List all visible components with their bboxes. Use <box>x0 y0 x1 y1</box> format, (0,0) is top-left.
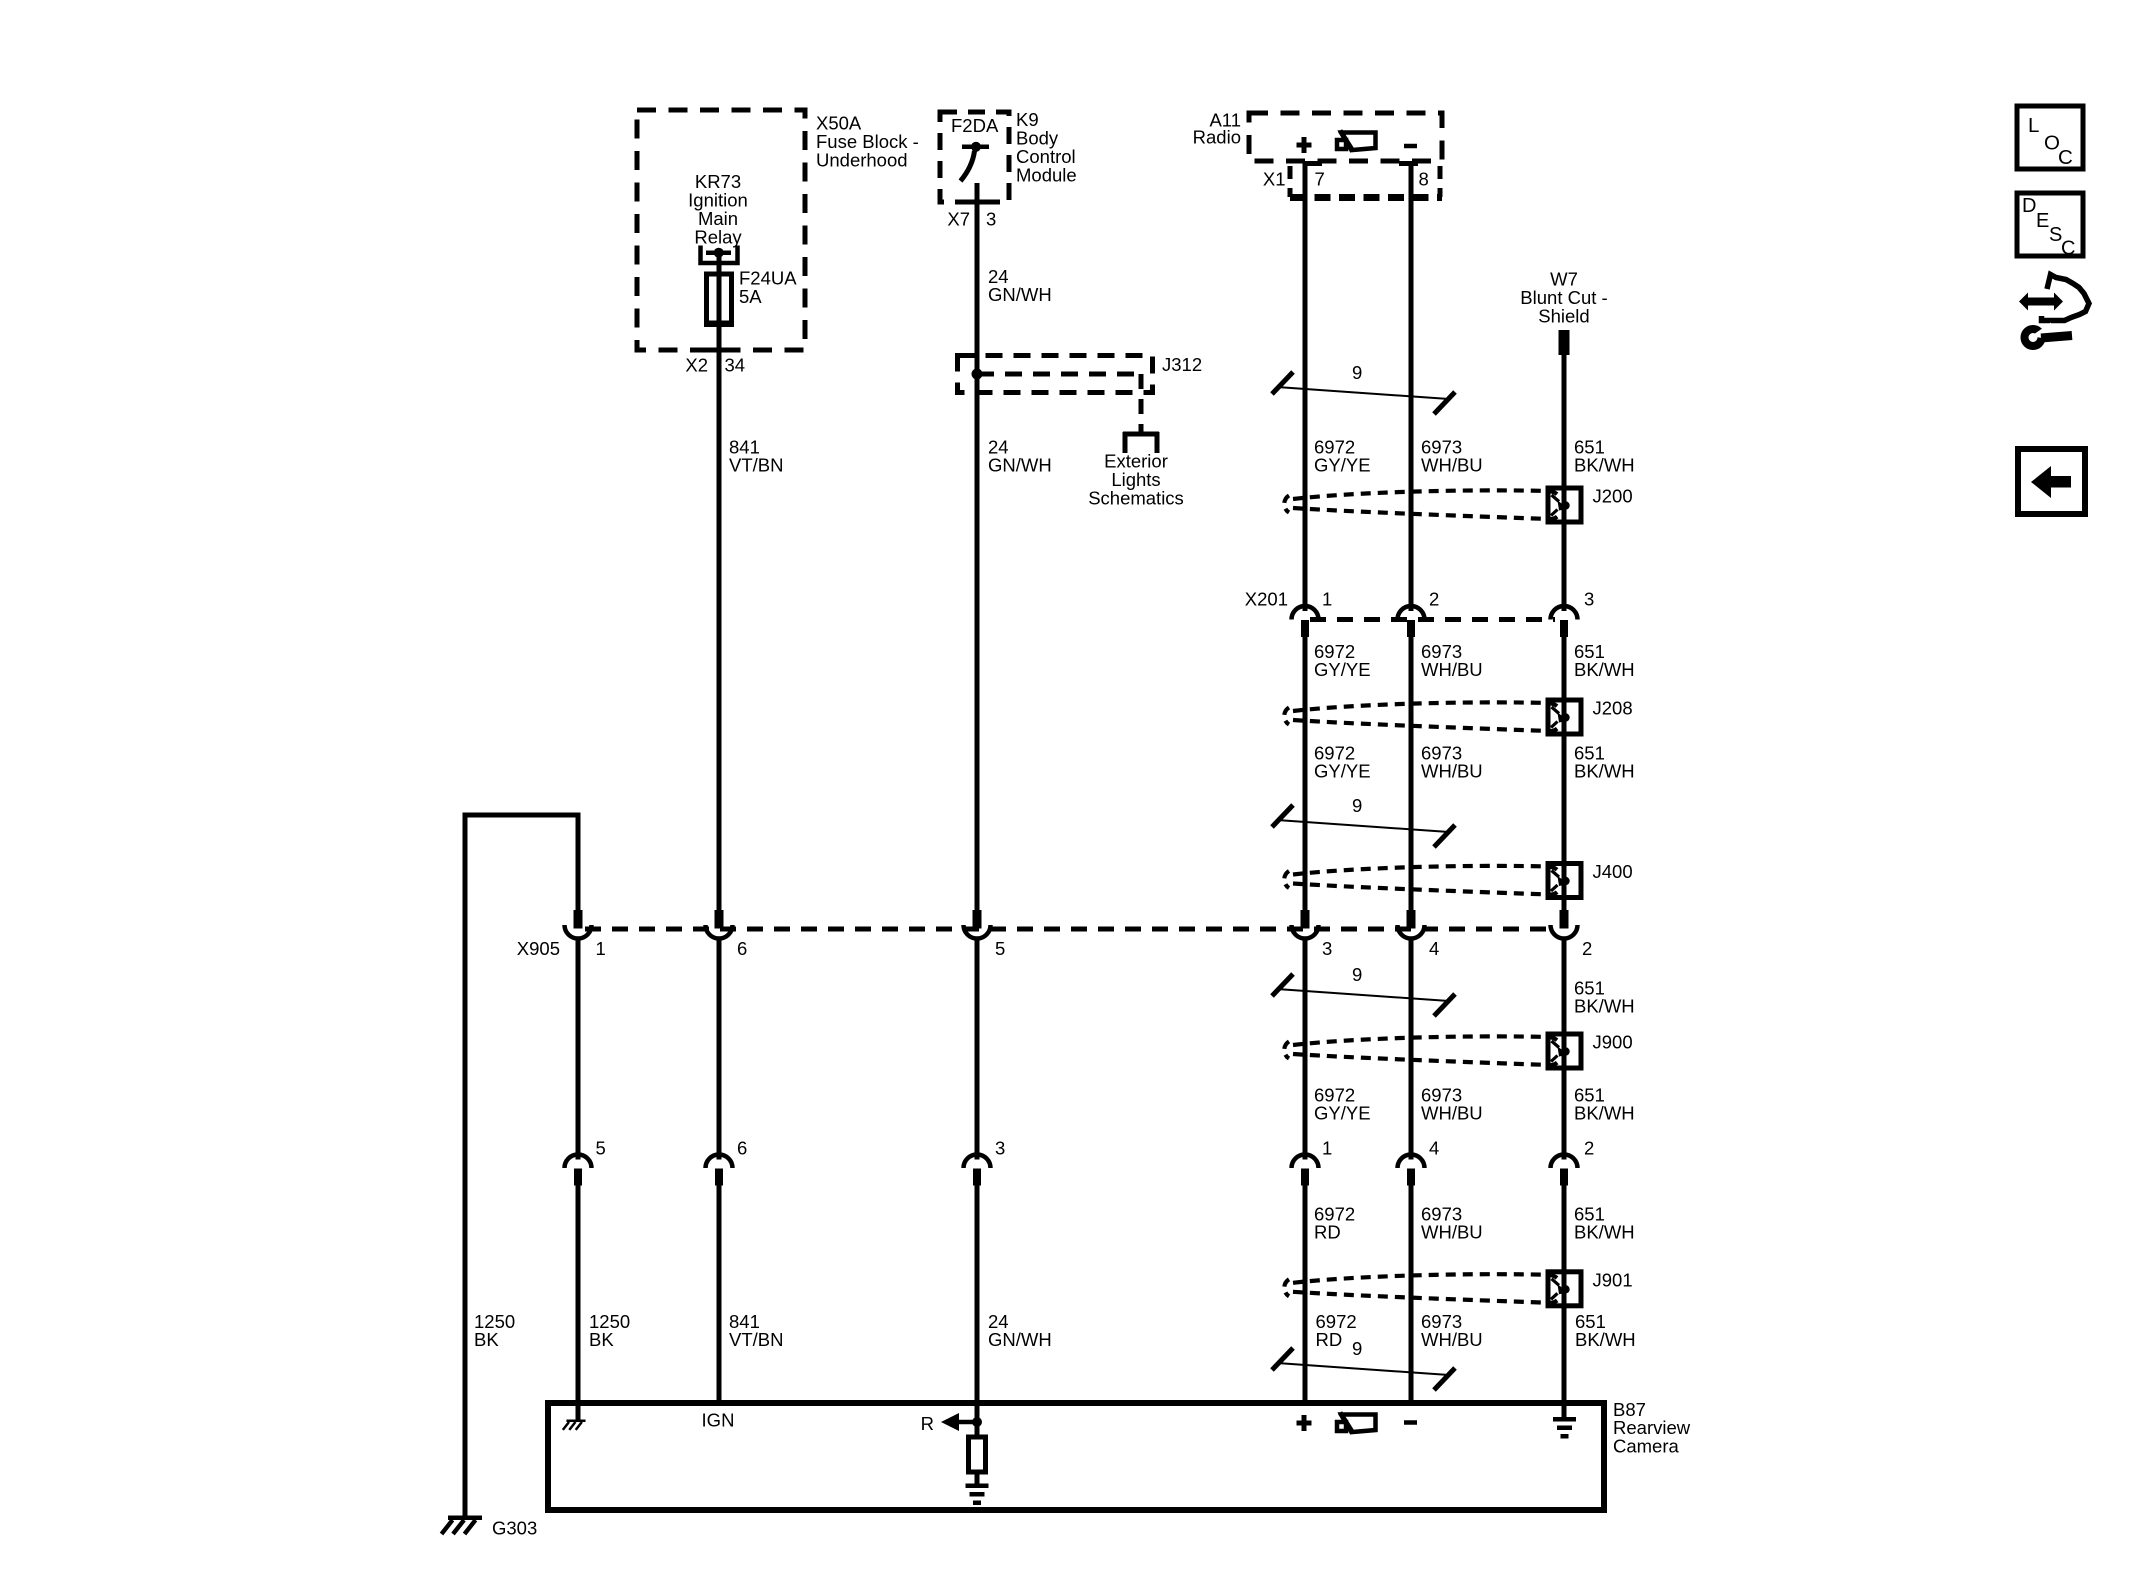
svg-text:C: C <box>2058 146 2073 169</box>
splice arrow J900 <box>1551 1041 1570 1062</box>
icon DESC <box>2017 193 2083 260</box>
svg-text:Module: Module <box>1016 165 1077 186</box>
wire labels row 3 <box>1314 742 1635 781</box>
svg-text:4: 4 <box>1429 938 1439 959</box>
splice J901 <box>1548 1269 1633 1306</box>
shield ellipse J900 <box>1284 1036 1560 1065</box>
svg-text:8: 8 <box>1419 169 1429 190</box>
svg-text:WH/BU: WH/BU <box>1421 761 1483 782</box>
svg-text:BK/WH: BK/WH <box>1575 1329 1636 1350</box>
svg-text:R: R <box>921 1413 934 1434</box>
svg-text:5: 5 <box>596 1138 606 1159</box>
wire 841 VT/BN <box>717 253 722 1406</box>
camera termination resistor <box>966 1437 989 1505</box>
svg-text:D: D <box>2022 195 2036 217</box>
shield ellipse J208 <box>1284 702 1560 731</box>
svg-text:Relay: Relay <box>694 227 742 248</box>
svg-text:BK/WH: BK/WH <box>1574 761 1635 782</box>
svg-text:VT/BN: VT/BN <box>729 1329 783 1350</box>
svg-text:WH/BU: WH/BU <box>1421 1103 1483 1124</box>
svg-text:GY/YE: GY/YE <box>1314 455 1371 476</box>
svg-text:2: 2 <box>1429 589 1439 610</box>
wire labels row 5 <box>1314 1084 1635 1123</box>
svg-text:RD: RD <box>1316 1329 1343 1350</box>
svg-text:1: 1 <box>596 938 606 959</box>
radio camera symbol <box>1337 131 1376 152</box>
splice J208 <box>1548 698 1633 735</box>
svg-text:Radio: Radio <box>1193 127 1241 148</box>
svg-text:WH/BU: WH/BU <box>1421 455 1483 476</box>
svg-text:1: 1 <box>1322 1138 1332 1159</box>
svg-text:GY/YE: GY/YE <box>1314 659 1371 680</box>
in-line connectors to camera <box>565 1138 1595 1186</box>
svg-text:GY/YE: GY/YE <box>1314 1103 1371 1124</box>
svg-text:Camera: Camera <box>1613 1435 1680 1456</box>
svg-text:7: 7 <box>1315 169 1325 190</box>
wire labels row 2 <box>1314 641 1635 680</box>
camera plus terminal <box>1297 1415 1312 1431</box>
svg-text:34: 34 <box>725 355 746 376</box>
twisted pair marker 4 <box>1272 1338 1455 1390</box>
svg-text:2: 2 <box>1584 1138 1594 1159</box>
connector X1 pins 7 8 <box>1263 161 1442 198</box>
svg-text:2: 2 <box>1582 938 1592 959</box>
icon back arrow <box>2018 449 2085 514</box>
svg-text:X7: X7 <box>947 209 970 230</box>
shield ellipse J200 <box>1284 490 1560 519</box>
svg-text:WH/BU: WH/BU <box>1421 1222 1483 1243</box>
svg-text:BK: BK <box>589 1329 614 1350</box>
svg-text:X201: X201 <box>1245 589 1288 610</box>
radio minus terminal <box>1404 144 1417 149</box>
svg-text:J900: J900 <box>1593 1032 1633 1053</box>
splice arrow J400 <box>1551 871 1570 892</box>
svg-text:BK: BK <box>474 1329 499 1350</box>
svg-text:9: 9 <box>1352 362 1362 383</box>
splice arrow J901 <box>1551 1279 1570 1300</box>
svg-text:6: 6 <box>737 938 747 959</box>
svg-text:BK/WH: BK/WH <box>1574 1222 1635 1243</box>
relay KR73 Ignition Main Relay <box>688 171 748 263</box>
svg-text:Shield: Shield <box>1538 306 1589 327</box>
splice arrow J208 <box>1551 707 1570 728</box>
svg-text:WH/BU: WH/BU <box>1421 1329 1483 1350</box>
twisted pair marker 3 <box>1272 964 1455 1016</box>
svg-text:3: 3 <box>986 209 996 230</box>
svg-text:3: 3 <box>1322 938 1332 959</box>
wire 24 GN/WH <box>975 183 980 1437</box>
label 24 GN/WH upper <box>988 266 1052 305</box>
radio A11 <box>1193 109 1442 161</box>
svg-text:J312: J312 <box>1162 354 1202 375</box>
svg-text:6: 6 <box>737 1138 747 1159</box>
svg-text:GN/WH: GN/WH <box>988 1329 1052 1350</box>
shield ellipse J400 <box>1284 866 1560 895</box>
svg-text:J400: J400 <box>1593 861 1633 882</box>
splice J400 <box>1548 861 1633 898</box>
wire 6972 <box>1303 163 1308 1406</box>
connector X2 pin 34 <box>685 355 745 376</box>
dashed branch to exterior lights <box>972 369 1142 417</box>
camera shield ground <box>1553 1417 1576 1439</box>
svg-text:9: 9 <box>1352 1338 1362 1359</box>
svg-text:BK/WH: BK/WH <box>1574 455 1635 476</box>
wire 1250 BK from G303 <box>463 813 581 1519</box>
svg-text:X2: X2 <box>685 355 708 376</box>
splice J900 <box>1548 1032 1633 1069</box>
wire 651 BK/WH shield drain <box>1562 354 1567 1417</box>
svg-text:9: 9 <box>1352 964 1362 985</box>
ground G303 <box>442 1516 538 1539</box>
svg-text:9: 9 <box>1352 795 1362 816</box>
wire 6973 <box>1409 163 1414 1406</box>
wire labels row 6 <box>1314 1203 1635 1242</box>
svg-text:3: 3 <box>1584 589 1594 610</box>
svg-text:GN/WH: GN/WH <box>988 284 1052 305</box>
svg-text:4: 4 <box>1429 1138 1439 1159</box>
svg-text:X905: X905 <box>517 938 560 959</box>
fuse element F2DA <box>961 142 990 181</box>
twisted pair marker 2 <box>1272 795 1455 847</box>
camera IGN label <box>702 1410 735 1431</box>
wire label 651 row 4 <box>1574 977 1635 1016</box>
junction block J312 <box>958 354 1203 393</box>
svg-text:E: E <box>2036 210 2049 232</box>
svg-text:BK/WH: BK/WH <box>1574 996 1635 1017</box>
in-line connector X201 <box>1245 589 1595 638</box>
svg-text:VT/BN: VT/BN <box>729 455 783 476</box>
camera R terminal arrow <box>921 1413 982 1434</box>
splice arrow J200 <box>1551 495 1570 516</box>
camera internal ground <box>563 1420 586 1430</box>
svg-text:GN/WH: GN/WH <box>988 455 1052 476</box>
svg-text:IGN: IGN <box>702 1410 735 1431</box>
body control module K9 <box>940 109 1077 202</box>
fuse block X50A Fuse Block - Underhood <box>637 110 919 350</box>
wire labels row 1 <box>729 436 1635 475</box>
svg-text:BK/WH: BK/WH <box>1574 659 1635 680</box>
svg-text:RD: RD <box>1314 1222 1341 1243</box>
camera symbol <box>1337 1413 1376 1434</box>
svg-text:G303: G303 <box>492 1518 537 1539</box>
svg-text:WH/BU: WH/BU <box>1421 659 1483 680</box>
connector X7 pin 3 <box>947 209 996 230</box>
svg-text:BK/WH: BK/WH <box>1574 1103 1635 1124</box>
camera minus terminal <box>1404 1420 1417 1425</box>
blunt cut W7 shield <box>1520 269 1607 356</box>
svg-text:J200: J200 <box>1593 486 1633 507</box>
svg-text:Schematics: Schematics <box>1088 488 1184 509</box>
svg-text:GY/YE: GY/YE <box>1314 761 1371 782</box>
in-line connector X905 <box>517 910 1593 959</box>
svg-text:3: 3 <box>995 1138 1005 1159</box>
svg-text:J208: J208 <box>1593 698 1633 719</box>
wire 1250 BK to camera <box>576 815 581 1421</box>
wire labels row 7 <box>474 1311 1636 1350</box>
icon LOC <box>2017 106 2083 169</box>
fuse F24UA 5A <box>704 268 797 328</box>
radio plus terminal <box>1297 137 1312 153</box>
rearview camera B87 <box>548 1399 1691 1510</box>
svg-text:5: 5 <box>995 938 1005 959</box>
splice J200 <box>1548 486 1633 523</box>
svg-text:L: L <box>2028 114 2039 137</box>
svg-text:1: 1 <box>1322 589 1332 610</box>
svg-text:5A: 5A <box>739 286 762 307</box>
twisted pair marker 1 <box>1272 362 1455 414</box>
shield ellipse J901 <box>1284 1274 1560 1303</box>
svg-text:C: C <box>2061 238 2075 260</box>
svg-text:J901: J901 <box>1593 1269 1633 1290</box>
off-page fork Exterior Lights Schematics <box>1088 424 1184 509</box>
svg-text:X1: X1 <box>1263 169 1286 190</box>
icon harness repair <box>2019 275 2089 347</box>
svg-text:F2DA: F2DA <box>951 115 999 136</box>
svg-text:Underhood: Underhood <box>816 150 908 171</box>
